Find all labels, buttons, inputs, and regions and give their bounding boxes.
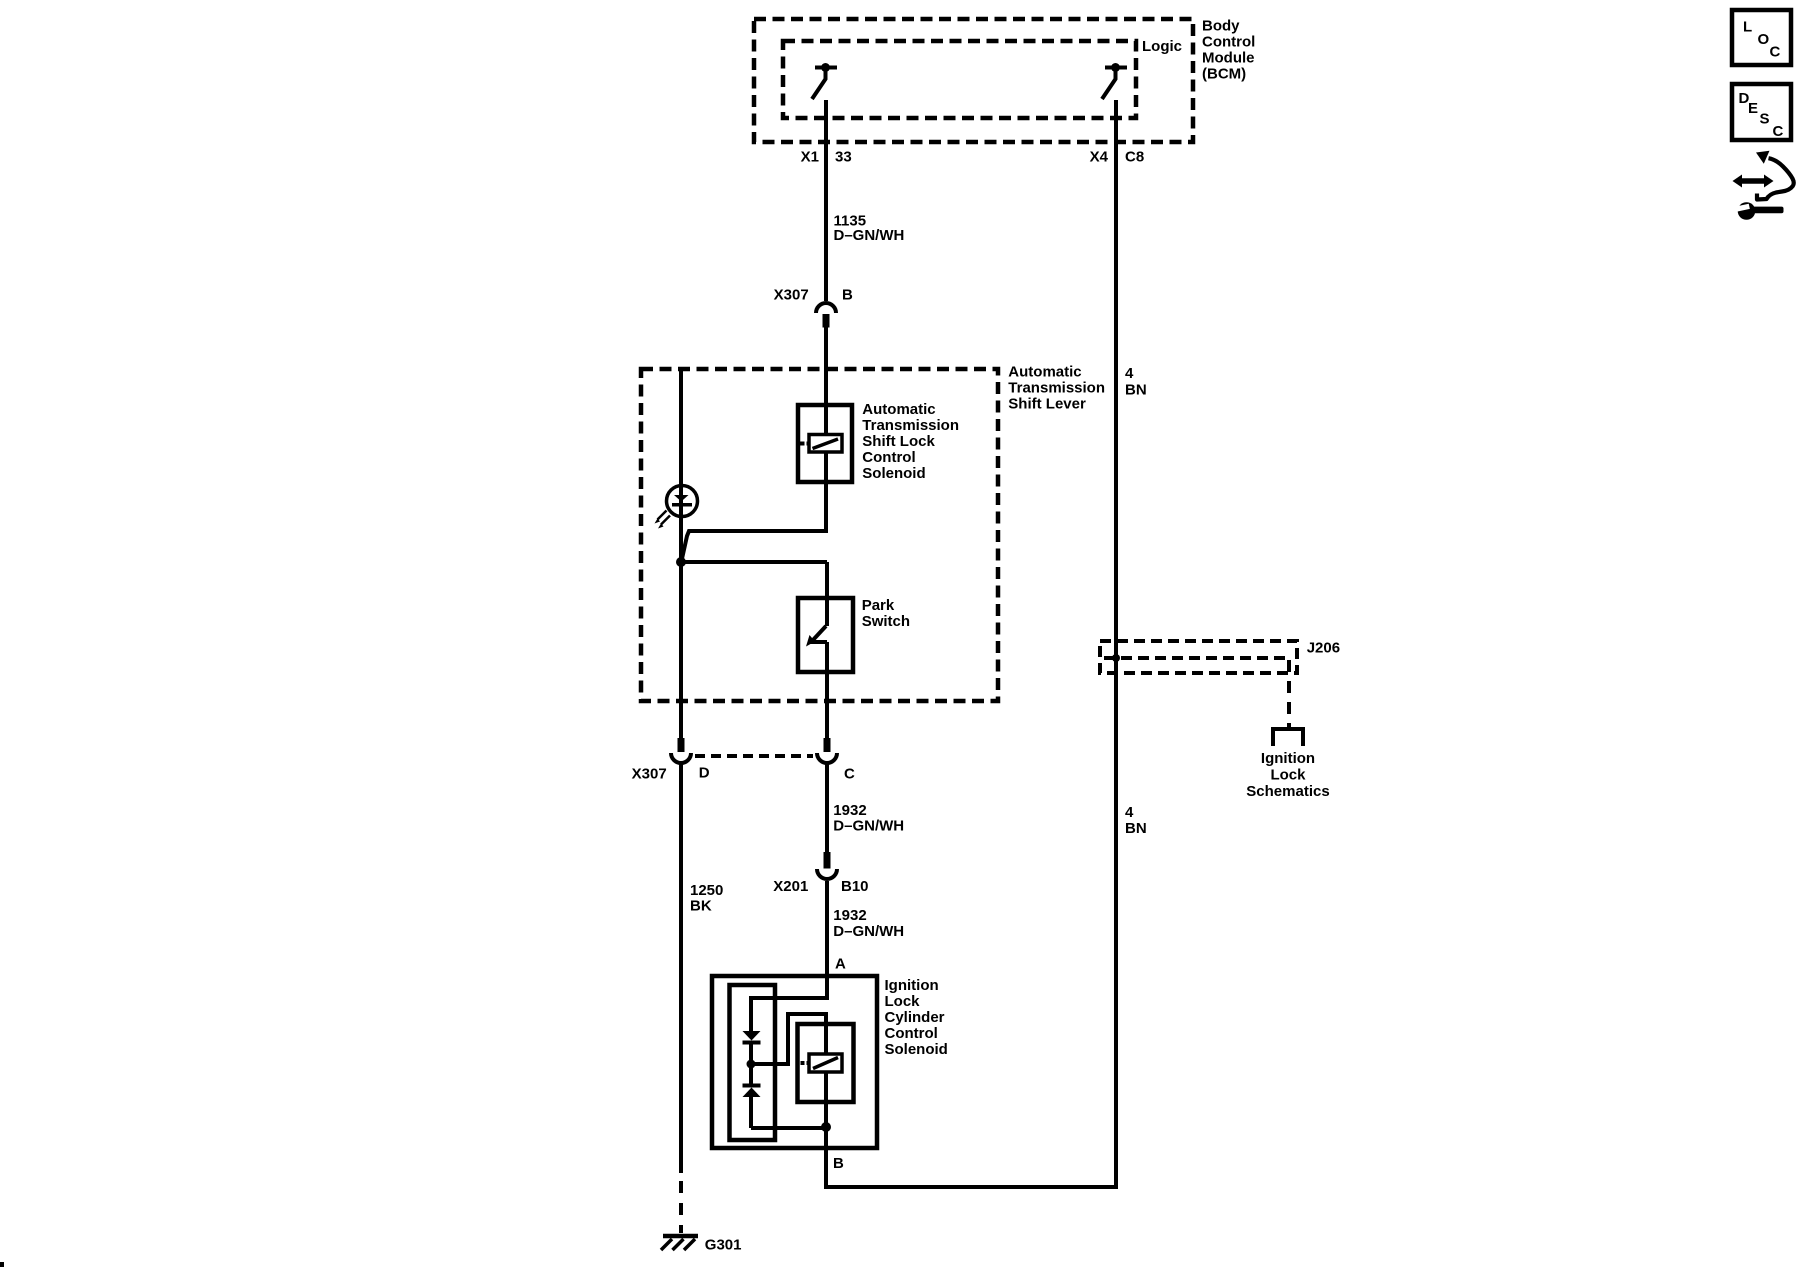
- svg-text:D: D: [699, 765, 710, 782]
- svg-text:Automatic: Automatic: [1008, 364, 1081, 381]
- svg-text:D–GN/WH: D–GN/WH: [833, 923, 904, 940]
- svg-text:L: L: [1743, 19, 1752, 36]
- svg-text:B: B: [833, 1155, 844, 1172]
- svg-text:33: 33: [835, 148, 852, 165]
- svg-text:Control: Control: [885, 1025, 938, 1042]
- svg-text:Cylinder: Cylinder: [885, 1009, 945, 1026]
- svg-text:Transmission: Transmission: [862, 417, 959, 434]
- svg-text:A: A: [835, 955, 846, 972]
- svg-text:B10: B10: [841, 878, 869, 895]
- svg-text:Park: Park: [862, 597, 895, 614]
- svg-text:Lock: Lock: [1270, 767, 1306, 784]
- svg-text:Transmission: Transmission: [1008, 380, 1105, 397]
- svg-text:C8: C8: [1125, 148, 1144, 165]
- svg-text:Body: Body: [1202, 17, 1240, 34]
- svg-text:Ignition: Ignition: [885, 977, 939, 994]
- svg-text:Solenoid: Solenoid: [862, 465, 925, 482]
- svg-text:BN: BN: [1125, 820, 1147, 837]
- svg-text:1932: 1932: [833, 907, 866, 924]
- svg-text:C: C: [844, 765, 855, 782]
- svg-text:J206: J206: [1307, 640, 1340, 657]
- svg-text:Module: Module: [1202, 49, 1255, 66]
- svg-text:4: 4: [1125, 804, 1134, 821]
- svg-text:1250: 1250: [690, 882, 723, 899]
- svg-text:BN: BN: [1125, 381, 1147, 398]
- svg-text:X307: X307: [774, 287, 809, 304]
- svg-text:Switch: Switch: [862, 613, 910, 630]
- svg-text:X201: X201: [773, 878, 808, 895]
- svg-text:BK: BK: [690, 898, 712, 915]
- svg-text:D–GN/WH: D–GN/WH: [833, 818, 904, 835]
- svg-text:G301: G301: [705, 1237, 742, 1254]
- svg-text:Control: Control: [862, 449, 915, 466]
- svg-text:E: E: [1748, 100, 1758, 117]
- svg-text:Ignition: Ignition: [1261, 750, 1315, 767]
- svg-text:(BCM): (BCM): [1202, 65, 1246, 82]
- svg-text:X1: X1: [801, 148, 819, 165]
- svg-text:4: 4: [1125, 365, 1134, 382]
- svg-text:1932: 1932: [833, 802, 866, 819]
- svg-text:Schematics: Schematics: [1246, 783, 1329, 800]
- svg-text:C: C: [1773, 123, 1784, 140]
- svg-text:Shift Lock: Shift Lock: [862, 433, 935, 450]
- svg-text:Solenoid: Solenoid: [885, 1041, 948, 1058]
- svg-text:B: B: [842, 287, 853, 304]
- svg-text:X4: X4: [1090, 148, 1109, 165]
- svg-text:Logic: Logic: [1142, 38, 1182, 55]
- svg-text:Control: Control: [1202, 33, 1255, 50]
- svg-text:C: C: [1770, 43, 1781, 60]
- svg-text:Shift Lever: Shift Lever: [1008, 396, 1086, 413]
- svg-text:Automatic: Automatic: [862, 401, 935, 418]
- svg-text:X307: X307: [632, 765, 667, 782]
- svg-text:Lock: Lock: [885, 993, 921, 1010]
- svg-text:S: S: [1760, 111, 1770, 128]
- svg-text:D–GN/WH: D–GN/WH: [834, 227, 905, 244]
- svg-text:O: O: [1758, 31, 1770, 48]
